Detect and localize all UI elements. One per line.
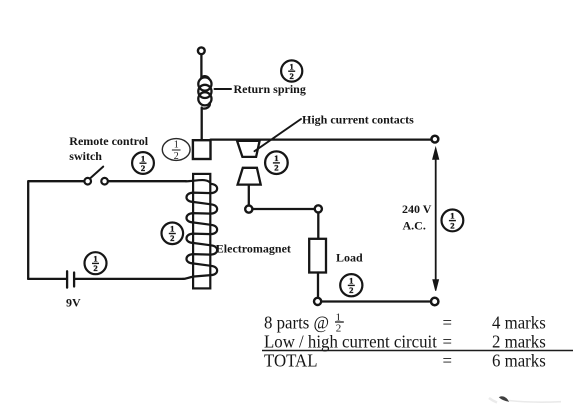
svg-text:1: 1: [93, 254, 97, 264]
svg-text:A.C.: A.C.: [403, 219, 426, 233]
wire: left loop top (vertical + to switch): [28, 181, 84, 279]
mark circle 1/2: 240V supply: [442, 210, 464, 232]
load resistor: [309, 239, 326, 273]
svg-text:1: 1: [141, 153, 145, 163]
svg-text:9V: 9V: [66, 296, 81, 310]
svg-text:2: 2: [274, 163, 278, 173]
electromagnet coil winding: [183, 180, 217, 279]
svg-text:Load: Load: [336, 251, 363, 265]
node: below lower contact: [245, 206, 252, 213]
wire: top terminal to spring: [200, 54, 202, 78]
mark circle 1/2: return spring: [281, 60, 302, 81]
mark ellipse 1/2: armature (light): [162, 139, 190, 162]
svg-text:240 V: 240 V: [402, 202, 432, 216]
label pointer line: return spring: [215, 88, 232, 90]
wire: battery to electromagnet coil bottom: [75, 278, 183, 280]
svg-text:2: 2: [93, 263, 97, 273]
svg-text:Low / high current circuit: Low / high current circuit: [264, 331, 437, 352]
marks table row 1: 8 parts: [264, 312, 546, 335]
wire: battery left: [28, 278, 66, 280]
svg-text:=: =: [443, 331, 453, 352]
mark circle 1/2: electromagnet coil: [162, 223, 184, 245]
high current contact: upper (moving): [237, 141, 260, 157]
svg-text:2: 2: [290, 71, 294, 81]
label pointer line: high current contacts: [255, 119, 302, 151]
svg-text:2 marks: 2 marks: [492, 331, 546, 352]
svg-text:4 marks: 4 marks: [492, 312, 546, 333]
svg-text:=: =: [443, 312, 453, 333]
wire: switch to electromagnet coil: [108, 180, 186, 182]
svg-text:1: 1: [290, 61, 294, 71]
terminal node: bottom right: [431, 298, 438, 305]
svg-text:1: 1: [349, 276, 353, 286]
svg-text:Remote control: Remote control: [69, 134, 148, 148]
high current contact: lower (fixed): [238, 168, 261, 185]
svg-text:1: 1: [274, 153, 278, 163]
wire: lower contact to node: [248, 185, 250, 206]
wire: load top node to load: [317, 213, 319, 239]
svg-text:2: 2: [450, 220, 454, 230]
armature block: [193, 140, 211, 159]
svg-text:6 marks: 6 marks: [492, 350, 546, 371]
svg-text:1: 1: [450, 211, 454, 221]
mark circle 1/2: load: [340, 274, 362, 296]
wire: contact arm to right terminal: [211, 138, 432, 140]
svg-text:8 parts @: 8 parts @: [264, 312, 329, 333]
marks table row 3: total: [264, 350, 546, 371]
return spring coil: [198, 76, 211, 108]
node: load bottom: [314, 298, 321, 305]
svg-text:1: 1: [174, 140, 179, 151]
svg-text:Return spring: Return spring: [234, 82, 306, 96]
svg-text:2: 2: [141, 163, 145, 173]
electromagnet core: [193, 174, 210, 289]
svg-text:2: 2: [349, 285, 353, 295]
node: load top: [315, 205, 322, 212]
mark circle 1/2: contacts: [265, 151, 288, 174]
terminal node: top supply: [198, 47, 205, 54]
wire: spring to armature block: [201, 108, 203, 140]
battery 9V plates: [67, 271, 74, 287]
switch contact circles and lever (remote control switch): [84, 167, 108, 185]
scan artifact mark bottom right: [489, 396, 561, 402]
svg-text:1: 1: [170, 224, 174, 234]
dimension arrow: 240V A.C. span: [433, 148, 439, 291]
marks table row 2: low/high current circuit: [264, 331, 546, 352]
wire: load to bottom node: [317, 273, 319, 298]
svg-text:switch: switch: [69, 149, 102, 163]
mark circle 1/2: battery: [85, 252, 107, 274]
terminal node: top right: [432, 136, 439, 143]
wire: node to load top node: [253, 208, 315, 210]
svg-text:=: =: [443, 350, 453, 371]
svg-text:Electromagnet: Electromagnet: [216, 242, 291, 256]
svg-text:2: 2: [170, 233, 174, 243]
mark circle 1/2: switch: [132, 152, 154, 174]
svg-text:High current contacts: High current contacts: [302, 113, 414, 127]
svg-text:2: 2: [174, 151, 179, 162]
rule line under row 2: [262, 350, 573, 352]
svg-text:TOTAL: TOTAL: [264, 350, 317, 371]
wire: bottom node to bottom-right terminal: [321, 300, 431, 302]
